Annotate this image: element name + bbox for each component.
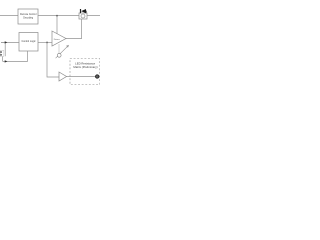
wire IR receiver top to control logic [1, 42, 5, 56]
IR receiver RX1 [0, 50, 4, 56]
motor M1 [79, 13, 87, 19]
wire branch down to buffer [47, 42, 59, 77]
dashed block LED Resistance Matrix [70, 59, 100, 85]
svg-text:Driver: Driver [54, 38, 60, 41]
block U1 Remote Control Decoding [18, 9, 38, 24]
svg-text:Remote Control: Remote Control [20, 13, 37, 16]
svg-text:Decoding: Decoding [23, 17, 34, 19]
block U2 Control Logic [19, 33, 38, 52]
node junction on top wire [56, 15, 58, 17]
wire IR receiver bottom [2, 57, 4, 62]
wire control logic bottom loop [3, 51, 28, 61]
arrow into control logic loop [5, 60, 8, 62]
wire motor bottom to driver output [66, 19, 82, 39]
wire control logic to driver input [38, 41, 52, 43]
wire input to decoder [0, 15, 18, 17]
LED DS1 [96, 75, 99, 78]
svg-text:Control Logic: Control Logic [21, 40, 36, 43]
buffer A2 [59, 72, 67, 81]
diode D1 [81, 9, 88, 13]
op-amp A1 driver [52, 31, 66, 46]
wire decoder output to right edge [38, 15, 100, 17]
wire junction down to driver top [56, 16, 58, 34]
arrow into control logic input [5, 41, 8, 43]
sensor circle Q1 [57, 53, 61, 57]
svg-text:Matrix (Preliminary): Matrix (Preliminary) [73, 65, 97, 69]
wire buffer to LED [67, 76, 96, 78]
node junction driver input [46, 42, 48, 44]
sensor arrow below driver [56, 44, 69, 58]
